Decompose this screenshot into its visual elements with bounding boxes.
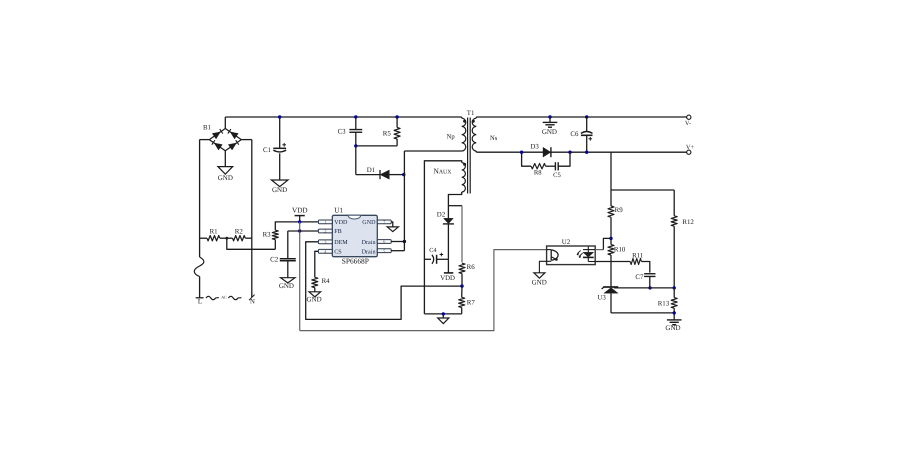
svg-text:C1: C1 bbox=[263, 147, 272, 154]
svg-text:U2: U2 bbox=[562, 239, 571, 246]
svg-text:GND: GND bbox=[362, 219, 376, 226]
svg-text:R2: R2 bbox=[235, 228, 244, 235]
svg-text:C2: C2 bbox=[270, 256, 279, 263]
svg-text:2: 2 bbox=[324, 229, 326, 234]
svg-text:C7: C7 bbox=[635, 274, 644, 281]
svg-text:V-: V- bbox=[685, 120, 691, 127]
svg-text:R6: R6 bbox=[467, 264, 476, 271]
svg-text:U3: U3 bbox=[597, 295, 606, 302]
svg-text:R3: R3 bbox=[263, 232, 272, 239]
svg-text:C5: C5 bbox=[553, 172, 561, 179]
svg-text:GND: GND bbox=[279, 282, 294, 290]
svg-text:CS: CS bbox=[334, 249, 342, 256]
svg-text:FB: FB bbox=[334, 229, 341, 235]
svg-text:R12: R12 bbox=[682, 219, 694, 226]
svg-text:C6: C6 bbox=[570, 131, 579, 138]
svg-text:Ns: Ns bbox=[490, 135, 498, 142]
svg-text:R9: R9 bbox=[615, 207, 624, 214]
svg-text:D3: D3 bbox=[530, 144, 539, 151]
svg-text:D2: D2 bbox=[437, 211, 446, 218]
svg-text:T1: T1 bbox=[467, 110, 475, 117]
svg-text:D1: D1 bbox=[367, 167, 376, 174]
svg-text:Drain: Drain bbox=[362, 239, 376, 246]
svg-text:R1: R1 bbox=[210, 228, 219, 235]
svg-text:V+: V+ bbox=[686, 144, 695, 151]
svg-text:GND: GND bbox=[307, 296, 322, 304]
svg-text:C4: C4 bbox=[429, 247, 436, 254]
svg-text:Np: Np bbox=[447, 134, 456, 141]
svg-text:VDD: VDD bbox=[292, 207, 308, 215]
svg-text:R5: R5 bbox=[383, 130, 392, 137]
svg-text:L: L bbox=[198, 299, 202, 306]
svg-text:C3: C3 bbox=[338, 129, 347, 136]
svg-text:R13: R13 bbox=[658, 300, 670, 307]
svg-text:GND: GND bbox=[542, 128, 557, 136]
svg-text:R10: R10 bbox=[614, 247, 626, 254]
svg-text:U1: U1 bbox=[334, 207, 343, 215]
svg-text:VDD: VDD bbox=[440, 275, 455, 282]
svg-text:GND: GND bbox=[532, 279, 547, 287]
svg-text:B1: B1 bbox=[203, 124, 211, 131]
svg-text:GND: GND bbox=[218, 174, 233, 182]
svg-text:GND: GND bbox=[272, 186, 287, 194]
svg-text:R4: R4 bbox=[322, 278, 331, 285]
svg-text:1: 1 bbox=[324, 220, 326, 225]
svg-text:GND: GND bbox=[665, 324, 680, 332]
svg-text:SP6668P: SP6668P bbox=[342, 257, 369, 266]
svg-text:AC: AC bbox=[221, 295, 227, 300]
svg-text:DEM: DEM bbox=[334, 240, 348, 246]
svg-text:N: N bbox=[250, 299, 255, 306]
svg-text:R7: R7 bbox=[467, 299, 476, 306]
svg-text:R8: R8 bbox=[534, 170, 542, 177]
svg-text:Drain: Drain bbox=[362, 249, 376, 256]
svg-text:R11: R11 bbox=[632, 252, 644, 259]
svg-text:VDD: VDD bbox=[334, 220, 348, 226]
